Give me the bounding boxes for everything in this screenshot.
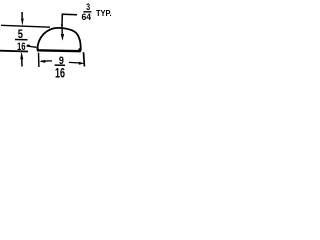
svg-text:16: 16	[55, 65, 65, 81]
node half-round cross-section outline (dome)	[37, 28, 81, 50]
wire flat base of half-round	[37, 49, 81, 52]
wire bottom extension line of 5/16 dimension	[0, 50, 28, 53]
node dome bottom-left corner blob	[37, 48, 39, 51]
wire right dimension line segment with right arrow	[69, 61, 80, 64]
wire fraction bar of 3/64	[83, 11, 91, 13]
node dome bottom-right corner blob	[78, 48, 81, 52]
wire leader line of 3/64 TYP. callout (elbow)	[62, 14, 77, 26]
wire leader vertical through arc with down arrowhead	[61, 24, 63, 36]
wire upper arrow of 5/16 (down arrow, tip on extension line)	[21, 12, 23, 18]
wire left extension line of 9/16 dimension	[38, 53, 40, 67]
wire left dimension line segment with left arrow	[41, 60, 52, 62]
wire fraction bar of 9/16	[55, 64, 65, 66]
wire short witness segment to dome base left	[27, 46, 37, 47]
wire lower arrow of 5/16 (up arrow, tip on extension line)	[20, 52, 23, 60]
wire fraction bar of 5/16	[15, 39, 28, 41]
wire right extension line of 9/16 dimension	[83, 52, 86, 66]
svg-text:64: 64	[82, 12, 92, 23]
svg-text:TYP.: TYP.	[96, 9, 112, 18]
wire top extension line of 5/16 dimension	[1, 25, 50, 27]
